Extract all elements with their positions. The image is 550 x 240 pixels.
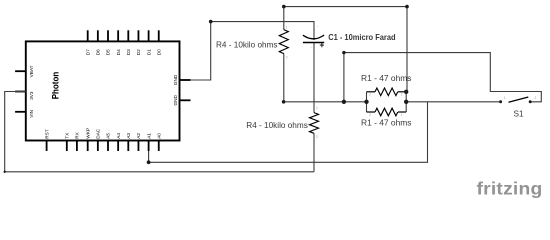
pin VIN bbox=[15, 110, 34, 118]
svg-text:fritzing: fritzing bbox=[477, 179, 543, 199]
pin GND lower bbox=[173, 94, 191, 105]
node R1 right top bbox=[404, 90, 408, 94]
svg-text:R1 - 47 ohms: R1 - 47 ohms bbox=[361, 118, 412, 127]
svg-text:1: 1 bbox=[401, 113, 403, 117]
pin TX bbox=[65, 132, 70, 151]
svg-text:A4: A4 bbox=[116, 133, 121, 139]
wire upper loop to switch right contact bbox=[344, 53, 541, 102]
svg-text:2: 2 bbox=[369, 113, 371, 117]
svg-text:~: ~ bbox=[311, 46, 313, 50]
wire node rail: R4 bottom lead to R1 left node bbox=[284, 54, 367, 102]
pin A5 bbox=[106, 133, 111, 151]
wire net A: R4 top to R1 right node bbox=[284, 7, 407, 92]
IC U1 Photon body bbox=[26, 41, 180, 140]
svg-text:~: ~ bbox=[317, 25, 319, 29]
pin VBAT bbox=[15, 65, 34, 77]
capacitor C1 leads bbox=[313, 43, 315, 113]
svg-text:D6: D6 bbox=[96, 49, 101, 55]
pin A3 bbox=[126, 133, 131, 151]
svg-text:VIN: VIN bbox=[29, 110, 34, 118]
svg-text:RST: RST bbox=[44, 129, 49, 139]
pin A1 bbox=[146, 133, 151, 151]
node bend at top right corner bbox=[405, 5, 409, 9]
pin RST bbox=[44, 129, 49, 151]
pin DAC bbox=[96, 128, 101, 151]
svg-text:D4: D4 bbox=[116, 49, 121, 55]
pin A2 bbox=[136, 133, 141, 151]
wire R1 right node to switch left contact bbox=[406, 101, 500, 103]
node bend at top of R4 top bbox=[282, 5, 286, 9]
pin A4 bbox=[116, 133, 121, 151]
svg-text:A2: A2 bbox=[136, 133, 141, 139]
pin D7 bbox=[85, 30, 90, 55]
pin RX bbox=[75, 131, 80, 151]
resistor R1 bottom bbox=[367, 108, 407, 117]
pin D2 bbox=[136, 30, 141, 55]
svg-text:WKP: WKP bbox=[85, 128, 90, 139]
svg-text:C1 - 10micro Farad: C1 - 10micro Farad bbox=[328, 33, 395, 42]
pin D3 bbox=[126, 30, 131, 55]
svg-text:1: 1 bbox=[316, 106, 318, 110]
pin A0 bbox=[156, 133, 161, 151]
svg-text:2: 2 bbox=[369, 93, 371, 97]
svg-text:2: 2 bbox=[316, 135, 318, 139]
wire A1 pin to switch rail bbox=[149, 102, 428, 163]
svg-text:A3: A3 bbox=[126, 133, 131, 139]
pin D5 bbox=[106, 30, 111, 55]
pin D4 bbox=[116, 30, 121, 55]
node junction on rail bbox=[342, 100, 346, 104]
node bend at rail left corner bbox=[282, 100, 286, 104]
node bend above branch bbox=[342, 51, 345, 54]
svg-text:R1 - 47 ohms: R1 - 47 ohms bbox=[361, 74, 412, 83]
svg-text:A1: A1 bbox=[146, 133, 151, 139]
svg-text:DAC: DAC bbox=[96, 128, 101, 139]
resistor R1 top bbox=[367, 88, 407, 97]
svg-text:Photon: Photon bbox=[51, 72, 61, 100]
wire GND pin to capacitor top bbox=[191, 22, 315, 80]
svg-text:D5: D5 bbox=[106, 49, 111, 55]
svg-text:2: 2 bbox=[535, 96, 537, 100]
resistor R4 top bbox=[279, 26, 288, 60]
svg-text:1: 1 bbox=[504, 96, 506, 100]
capacitor C1 bbox=[303, 25, 324, 49]
node bend at bottom left corner bbox=[3, 171, 5, 173]
svg-text:2: 2 bbox=[286, 56, 288, 60]
svg-text:RX: RX bbox=[75, 131, 80, 138]
R1 pair right bar bbox=[405, 92, 407, 112]
resistor R4 bottom bbox=[310, 106, 319, 139]
pin GND upper bbox=[173, 74, 191, 85]
svg-text:A0: A0 bbox=[156, 133, 161, 139]
svg-text:D3: D3 bbox=[126, 49, 131, 55]
svg-text:GND: GND bbox=[173, 94, 178, 105]
R1 pair left bar bbox=[366, 92, 368, 112]
node R1 left bbox=[364, 100, 368, 104]
node bend at A1 wire corner bbox=[147, 160, 151, 164]
pin WKP bbox=[85, 128, 90, 151]
svg-text:S1: S1 bbox=[514, 110, 524, 119]
svg-text:A5: A5 bbox=[106, 133, 111, 139]
svg-text:1: 1 bbox=[401, 93, 403, 97]
pin D0 bbox=[156, 30, 161, 55]
wire bottom R4 lead to bottom rail bbox=[313, 133, 315, 172]
svg-text:R4 - 10kilo ohms: R4 - 10kilo ohms bbox=[216, 41, 278, 50]
switch S1 bbox=[499, 96, 536, 104]
svg-text:R4 - 10kilo ohms: R4 - 10kilo ohms bbox=[246, 121, 308, 130]
node bend at GND wire corner bbox=[209, 20, 213, 24]
svg-text:D1: D1 bbox=[146, 49, 151, 55]
wire branch down from node rail bbox=[343, 53, 345, 102]
svg-text:3V3: 3V3 bbox=[29, 91, 34, 100]
svg-text:D0: D0 bbox=[156, 49, 161, 55]
wire 3V3 to left rail bbox=[5, 92, 314, 172]
svg-text:D7: D7 bbox=[85, 49, 90, 55]
svg-text:1: 1 bbox=[286, 26, 288, 30]
svg-text:TX: TX bbox=[65, 132, 70, 139]
svg-text:GND: GND bbox=[173, 74, 178, 85]
pin D6 bbox=[96, 30, 101, 55]
node R1 right mid bbox=[404, 100, 408, 104]
pin D1 bbox=[146, 30, 151, 55]
svg-text:D2: D2 bbox=[136, 49, 141, 55]
svg-text:VBAT: VBAT bbox=[29, 65, 34, 77]
pin 3V3 bbox=[15, 91, 34, 100]
